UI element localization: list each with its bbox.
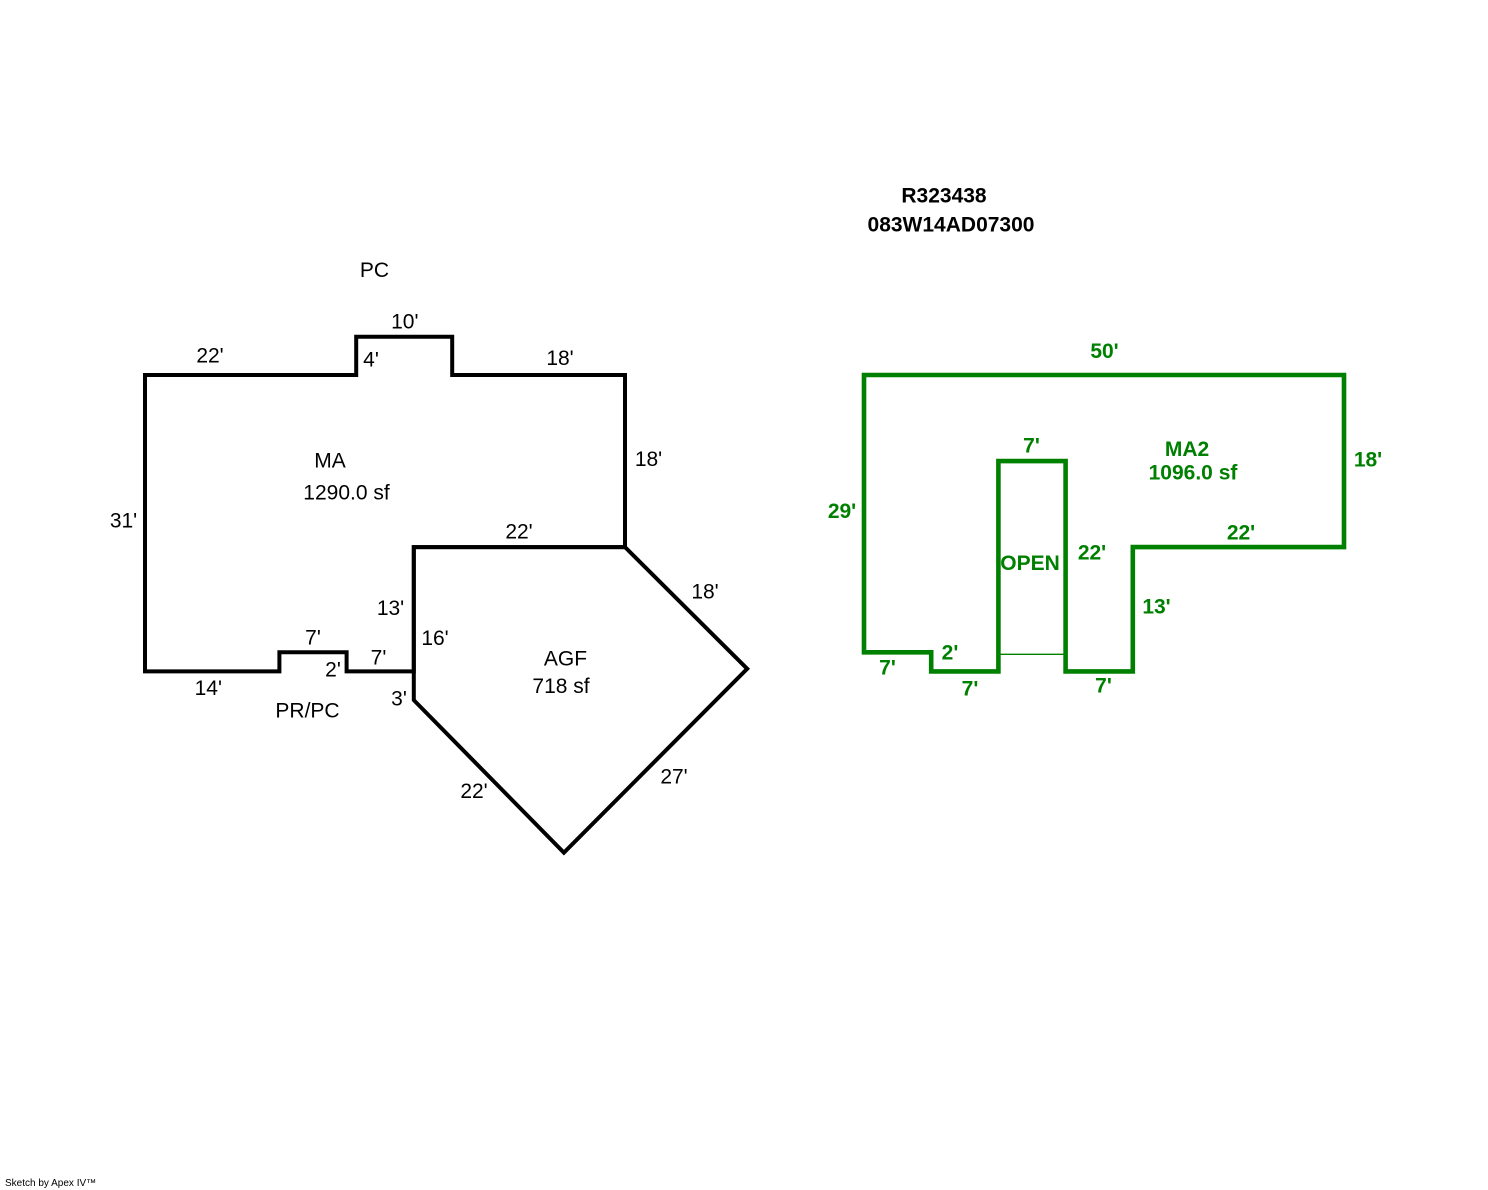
svg-text:14': 14': [195, 677, 222, 700]
svg-text:50': 50': [1090, 340, 1118, 363]
svg-text:1290.0 sf: 1290.0 sf: [303, 482, 390, 505]
svg-text:29': 29': [828, 500, 856, 523]
svg-text:18': 18': [691, 581, 718, 604]
svg-text:18': 18': [546, 347, 573, 370]
svg-text:2': 2': [325, 659, 341, 682]
svg-text:MA2: MA2: [1165, 438, 1209, 461]
svg-text:22': 22': [196, 345, 223, 368]
svg-text:7': 7': [962, 678, 979, 701]
svg-text:AGF: AGF: [544, 648, 587, 671]
svg-text:22': 22': [505, 521, 532, 544]
svg-text:7': 7': [1095, 675, 1112, 698]
svg-text:R323438: R323438: [901, 185, 987, 208]
svg-text:13': 13': [1142, 596, 1170, 619]
svg-text:16': 16': [421, 627, 448, 650]
svg-text:3': 3': [391, 688, 407, 711]
svg-text:13': 13': [377, 597, 404, 620]
svg-text:22': 22': [460, 780, 487, 803]
svg-text:31': 31': [110, 510, 137, 533]
svg-text:083W14AD07300: 083W14AD07300: [868, 214, 1035, 237]
svg-text:22': 22': [1078, 542, 1106, 565]
svg-text:27': 27': [660, 766, 687, 789]
svg-text:1096.0 sf: 1096.0 sf: [1149, 462, 1239, 485]
svg-text:PR/PC: PR/PC: [275, 700, 339, 723]
svg-text:Sketch by Apex IV™: Sketch by Apex IV™: [5, 1178, 96, 1189]
svg-text:22': 22': [1227, 522, 1255, 545]
svg-text:7': 7': [371, 647, 387, 670]
svg-text:4': 4': [363, 349, 379, 372]
svg-text:18': 18': [1354, 449, 1382, 472]
svg-text:7': 7': [879, 657, 896, 680]
svg-text:7': 7': [305, 627, 321, 650]
svg-text:2': 2': [942, 642, 959, 665]
svg-text:MA: MA: [314, 450, 346, 473]
svg-text:7': 7': [1023, 435, 1040, 458]
svg-text:18': 18': [635, 448, 662, 471]
svg-text:718 sf: 718 sf: [532, 675, 589, 698]
svg-text:PC: PC: [360, 259, 389, 282]
svg-text:OPEN: OPEN: [1000, 552, 1060, 575]
svg-text:10': 10': [391, 310, 418, 333]
